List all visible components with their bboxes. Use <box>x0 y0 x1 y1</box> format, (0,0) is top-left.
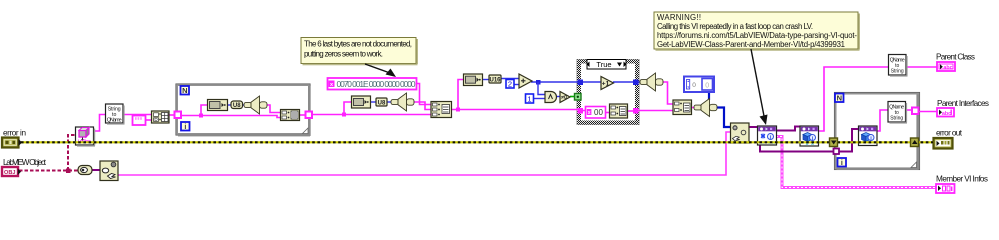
terminal: error in <box>2 138 22 148</box>
svg-text:Calling this VI repeatedly in: Calling this VI repeatedly in a fast loo… <box>657 22 813 31</box>
type cast 3 <box>640 73 663 91</box>
svg-text:U8: U8 <box>233 103 241 109</box>
loop2 count terminal N <box>835 94 844 103</box>
wire: concat1 to tunnel out <box>299 114 307 116</box>
case tunnel blue right <box>633 80 639 86</box>
concatenate strings 4 (in case) <box>610 104 628 118</box>
shift register left (error) <box>830 138 838 147</box>
wire: array const down to typecast4 <box>708 91 710 100</box>
wire: typecast1 out to concat1 <box>266 105 281 113</box>
wire: blue chain3 length to add <box>482 79 489 81</box>
loop1 iteration terminal i <box>181 122 190 131</box>
wire: AND to not-equal <box>557 96 561 98</box>
wire: typecast4 out dark blue to open ref <box>717 108 731 128</box>
svg-text:N: N <box>837 94 842 103</box>
type cast 2 <box>391 93 414 111</box>
terminal: Member VI Infos <box>936 184 955 193</box>
svg-text:String: String <box>891 69 904 75</box>
class info node E (in loop) <box>859 126 878 146</box>
terminal: Parent Interfaces <box>937 108 954 117</box>
case tunnel blue left <box>578 80 584 86</box>
type cast 4 <box>694 99 717 117</box>
wire: blue i32 chain1 <box>227 104 233 106</box>
terminal: error out <box>934 138 953 149</box>
svg-text:Parent Class: Parent Class <box>936 53 975 62</box>
svg-text:Parent Interfaces: Parent Interfaces <box>937 99 989 108</box>
wire: type constant stub <box>145 119 152 121</box>
wire: purple open ref to node B <box>748 126 758 128</box>
svg-text:≠0: ≠0 <box>561 95 567 101</box>
class info node C <box>800 126 819 146</box>
wire: QName top to Parent Class <box>905 66 937 68</box>
case selector label "True" <box>587 60 627 70</box>
wire: unflatten to loop1 tunnel <box>168 114 177 116</box>
AND function <box>545 92 557 103</box>
type cast 1 <box>244 96 267 114</box>
svg-text:String: String <box>890 116 903 122</box>
svg-text:QName: QName <box>107 118 122 124</box>
svg-text:0: 0 <box>692 82 696 89</box>
svg-text:The 6 last bytes are not docum: The 6 last bytes are not documented, <box>304 40 412 49</box>
svg-text:Get-LabVIEW-Class-Parent-and-M: Get-LabVIEW-Class-Parent-and-Member-VI/t… <box>657 40 845 49</box>
wire: const 1 to AND <box>533 98 545 100</box>
QName to String subVI (top) <box>889 55 908 77</box>
wire: add out to case tunnel <box>531 80 578 95</box>
tunnel loop1 right <box>306 112 313 119</box>
tunnel loop1 left <box>175 112 182 119</box>
shift register right (error) <box>911 138 919 147</box>
property node (class path) <box>100 161 118 181</box>
get LV class node LvClass <box>76 127 96 147</box>
wire: blue inside case <box>583 81 601 83</box>
wire: QName loop out to Parent Interfaces <box>905 109 912 111</box>
svg-text:00: 00 <box>594 108 603 117</box>
case tunnel pink right <box>633 108 639 114</box>
svg-text:0: 0 <box>705 83 709 90</box>
tunnel loop2 left purple <box>834 149 840 155</box>
wire: hex constant to concat2 <box>416 84 431 105</box>
increment function <box>601 77 614 90</box>
wire: LabVIEW Object dashed class wire <box>19 135 79 173</box>
wire: purple node B to node C <box>776 127 801 131</box>
wire: boolean green to case selector <box>570 96 577 98</box>
svg-text:2: 2 <box>508 80 512 89</box>
wire: purple node B down into loop2 to node E <box>760 144 836 152</box>
case tunnel selector (green) <box>575 94 582 101</box>
wire: node E to QName-to-String loop <box>876 110 888 131</box>
svg-text:N: N <box>182 86 187 95</box>
svg-text:LabVIEW Object: LabVIEW Object <box>3 158 47 167</box>
loop2 iteration terminal i <box>838 158 847 167</box>
to more specific class node <box>78 166 92 175</box>
wire: loop1 main string wire <box>180 105 281 118</box>
concatenate strings 3 <box>673 100 692 115</box>
wire: case out to concat3 <box>637 110 673 112</box>
case structure <box>577 60 639 125</box>
svg-text:error in: error in <box>3 129 26 138</box>
svg-text:abc: abc <box>944 65 953 71</box>
svg-text:1: 1 <box>527 95 531 104</box>
string to QName subVI <box>106 104 125 125</box>
svg-text:True: True <box>596 60 611 69</box>
wire: concat3 to typecast4 <box>691 107 699 109</box>
comment note 1 <box>301 38 418 66</box>
svg-text:Member VI Infos: Member VI Infos <box>936 175 988 184</box>
svg-text:WARNING!!: WARNING!! <box>657 13 701 22</box>
wire: concat2 out to case tunnel <box>451 80 578 112</box>
terminal: Parent Class <box>937 62 955 71</box>
tunnel loop2 right pink <box>912 108 919 115</box>
wire: const 2 to add <box>514 84 520 86</box>
svg-text:https://forums.ni.com/t5/LabVI: https://forums.ni.com/t5/LabVIEW/Data-ty… <box>657 31 857 40</box>
wire: purple to-more-specific to property node <box>91 169 100 171</box>
wire: case inside string to concat4 <box>583 110 588 112</box>
svg-text:i: i <box>841 160 843 167</box>
svg-text:U16: U16 <box>489 78 501 84</box>
case tunnel pink left <box>578 108 584 114</box>
svg-text:abc: abc <box>942 111 951 117</box>
svg-text:OBJ: OBJ <box>4 170 16 176</box>
class info node B <box>758 126 777 145</box>
wire: node C up to QName-to-String top <box>817 67 889 131</box>
unflatten from string node <box>152 111 170 123</box>
for loop 1 (left) <box>176 84 311 137</box>
note 1 arrow <box>365 64 396 77</box>
svg-text:x: x <box>588 110 591 116</box>
concatenate strings 2 (3 inputs) <box>431 102 452 118</box>
concatenate strings 1 <box>281 110 300 121</box>
array constant 0 <box>684 77 714 93</box>
U8 label 2 <box>376 98 387 107</box>
svg-text:error out: error out <box>936 129 963 138</box>
wire: loop1 out long string wire <box>311 102 431 117</box>
string length node 2 <box>352 96 371 108</box>
svg-text:i: i <box>184 124 186 131</box>
wire: typecast2 to concat2 <box>414 102 432 110</box>
string constant hex 0070 001E <box>328 78 417 90</box>
numeric constant 2 <box>506 80 514 89</box>
wire: case blue out to typecast3 <box>637 81 641 83</box>
string length node 1 <box>208 100 228 111</box>
add function <box>519 74 532 88</box>
svg-text:0070 001E 0000 0000 0000: 0070 001E 0000 0000 0000 <box>337 79 416 89</box>
wire: blue chain2 <box>369 101 376 103</box>
class type constant (pink box) <box>133 116 146 126</box>
open VI reference node <box>731 123 750 143</box>
wire: object out of Get LV Class to String-to-QName <box>92 115 106 132</box>
string constant 00 <box>586 107 606 119</box>
terminal: LabVIEW Object <box>2 167 21 176</box>
svg-text:U8: U8 <box>378 101 386 107</box>
wire: member VI infos array wire <box>776 137 936 188</box>
comment note 2 WARNING <box>654 12 860 51</box>
string length node 3 <box>464 74 483 86</box>
not equal to 0 function <box>560 92 570 103</box>
wire: String-to-QName to unflatten node <box>122 114 152 116</box>
note 2 arrow <box>751 49 768 125</box>
wire: error cluster dashed <box>21 141 934 143</box>
numeric constant 1 <box>526 94 534 104</box>
svg-text:putting zeros seem to work.: putting zeros seem to work. <box>304 50 383 59</box>
to U8 conversion 1 <box>231 101 243 109</box>
loop1 count terminal N <box>181 86 190 95</box>
wire: typecast3 out down to concat3 <box>662 82 673 104</box>
U16 label <box>489 75 501 84</box>
QName to String subVI (in loop) <box>888 102 907 124</box>
for loop 2 (right) <box>834 92 919 170</box>
svg-text:+1: +1 <box>602 81 610 88</box>
wire: LabVIEW object long wire to open ref <box>117 132 731 175</box>
